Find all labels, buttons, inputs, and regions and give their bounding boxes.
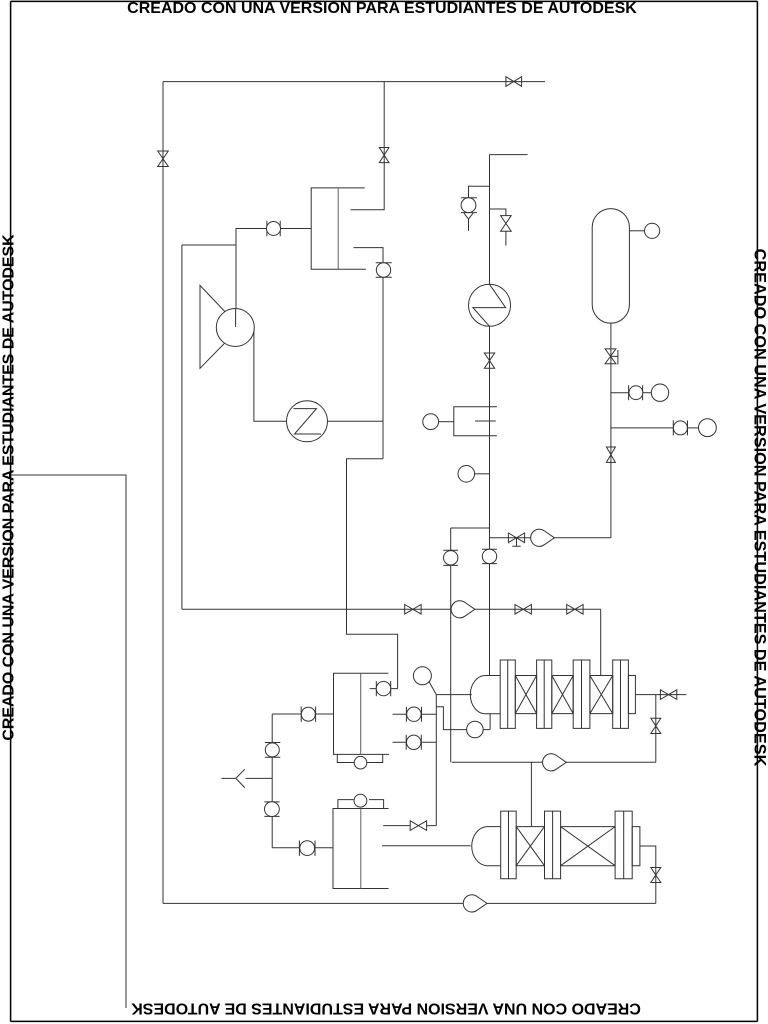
vessel V2 capsule xyxy=(592,209,629,324)
reactor R1 bed X2 xyxy=(552,676,573,714)
wire riser to drum D1 upper port xyxy=(351,82,385,210)
instrument I10 inline xyxy=(301,707,315,722)
drum D1 shell xyxy=(311,188,366,269)
instrument I4 inline xyxy=(482,549,497,563)
exchanger E3 tube sheet dashed xyxy=(360,673,362,754)
flow drop FD3 xyxy=(543,754,567,771)
wire left loop to border xyxy=(11,475,126,1008)
instrument branch B2 xyxy=(611,419,716,437)
svg-text:CREADO CON UNA VERSION PARA ES: CREADO CON UNA VERSION PARA ESTUDIANTES … xyxy=(131,999,641,1016)
reactor R1 flange F3 xyxy=(573,660,590,728)
valve V3 on D1 riser xyxy=(379,148,389,163)
wire left feed column xyxy=(271,714,273,848)
svg-text:CREADO CON UNA VERSION PARA ES: CREADO CON UNA VERSION PARA ESTUDIANTES … xyxy=(1,234,18,741)
wire R1 head bottom tap xyxy=(436,707,490,730)
valve V2 on left riser xyxy=(158,151,169,167)
valve V10 xyxy=(515,605,531,615)
valve V9 xyxy=(405,605,421,615)
reactor R2 flange F2 xyxy=(545,811,561,879)
svg-text:CREADO CON UNA VERSION PARA ES: CREADO CON UNA VERSION PARA ESTUDIANTES … xyxy=(127,0,637,17)
valve V14 xyxy=(410,821,426,831)
reactor R1 bed X3 xyxy=(590,676,613,714)
wire main center vertical xyxy=(489,155,491,676)
reactor R1 end cap xyxy=(628,676,635,714)
wire valve row xyxy=(182,608,601,610)
valve V5 below E2 xyxy=(484,353,494,368)
relief instrument RV1 branch xyxy=(461,186,490,231)
valve V6 with stem xyxy=(605,349,618,365)
instrument I3 inline xyxy=(443,550,458,565)
reactor R2 flange F1 xyxy=(501,811,517,879)
drum D1 internal dashed xyxy=(337,188,339,269)
valve V15 xyxy=(651,868,661,883)
flow drop FD2 xyxy=(451,601,475,618)
reactor R1 head xyxy=(470,676,500,714)
reactor R1 flange F4 xyxy=(613,660,629,728)
reactor R1 flange F2 xyxy=(537,660,552,728)
wire branch to V2 drain xyxy=(490,537,611,539)
exchanger E4 shell xyxy=(333,809,389,889)
reactor R2 bed XB xyxy=(561,827,616,866)
valve V11 xyxy=(567,605,583,615)
wire R1 outlet xyxy=(635,694,686,696)
instrument I2 inline xyxy=(376,263,392,277)
vent valve V4 branch xyxy=(490,209,512,246)
instrument I12 inline xyxy=(264,802,279,817)
reactor R1 bed X1 xyxy=(515,676,536,714)
instrument I13 inline xyxy=(299,841,315,856)
instrument branch B1 xyxy=(611,384,669,401)
instrument P4 xyxy=(467,721,484,738)
wire stub into E3 open end xyxy=(370,688,398,690)
wire left recycle riser xyxy=(162,82,164,904)
cooler E1 (Z symbol) xyxy=(287,401,328,442)
wire E4 left port xyxy=(272,847,333,849)
valve V12 xyxy=(660,690,676,700)
wire link to left drop xyxy=(182,244,236,246)
valve V8 with stem xyxy=(508,533,524,546)
wire tee to bypass xyxy=(451,528,490,762)
feed arrow xyxy=(222,769,273,787)
exchanger E4 cap xyxy=(338,794,384,808)
wire compressor discharge xyxy=(254,332,287,422)
instrument I7 inline xyxy=(376,681,390,696)
reactor R2 flange F3 xyxy=(615,811,632,879)
valve V7 small xyxy=(606,447,615,462)
reactor R2 end cap xyxy=(632,827,640,866)
flow drop FD1 xyxy=(531,529,555,546)
wire transfer line R1 to R2 xyxy=(452,761,656,763)
reactor R2 bed XA xyxy=(516,827,544,866)
drum D2 xyxy=(454,407,497,436)
wire cooler E1 outlet xyxy=(328,420,384,422)
wire drop to reactor R1 bed3 xyxy=(600,609,602,675)
wire top header line xyxy=(163,81,545,83)
exchanger E4 tube sheet dashed xyxy=(360,809,362,889)
nozzle instrument P7 xyxy=(629,223,659,238)
wire top stub xyxy=(490,154,528,156)
flow drop FD4 on bottom line xyxy=(463,895,487,912)
wire V2 bottom column xyxy=(610,323,612,538)
instrument P3 with leader xyxy=(413,667,436,695)
wire D1 lower port down line xyxy=(353,248,383,459)
wire R1 outlet down branch xyxy=(655,695,657,763)
wire R1 inlet leader xyxy=(436,694,472,696)
reactor R1 flange F1 xyxy=(500,660,515,728)
instrument I11 inline xyxy=(265,743,280,758)
wire E3 port C xyxy=(393,741,437,743)
reactor R2 head xyxy=(472,827,501,866)
heat exchanger E2 xyxy=(469,284,511,326)
exchanger E3 boot xyxy=(337,754,382,769)
valve V1 on top header xyxy=(506,77,522,87)
instrument P5 tap xyxy=(458,466,490,483)
instrument I9 inline xyxy=(406,735,421,750)
wire D1 left port xyxy=(236,229,311,327)
wire R2 outlet xyxy=(640,846,656,903)
svg-text:CREADO CON UNA VERSION PARA ES: CREADO CON UNA VERSION PARA ESTUDIANTES … xyxy=(751,249,768,767)
wire E3 port B xyxy=(393,713,437,715)
wire left down line xyxy=(181,245,183,609)
instrument P6 at D2 left xyxy=(423,414,454,430)
wire E3 left port xyxy=(272,713,333,715)
wire side vertical x436 xyxy=(435,695,437,826)
exchanger E3 shell xyxy=(334,673,390,754)
wire R2 feed drop xyxy=(530,762,532,826)
wire E4 upper port xyxy=(383,825,436,827)
compressor K1 xyxy=(200,285,254,368)
instrument I8 inline xyxy=(406,707,421,722)
valve V13 xyxy=(651,718,661,733)
wire bottom return line xyxy=(163,902,656,904)
wire R2 inlet xyxy=(382,845,471,847)
instrument I1 inline xyxy=(267,221,281,236)
wire jog down to exchanger E3 xyxy=(347,459,398,689)
